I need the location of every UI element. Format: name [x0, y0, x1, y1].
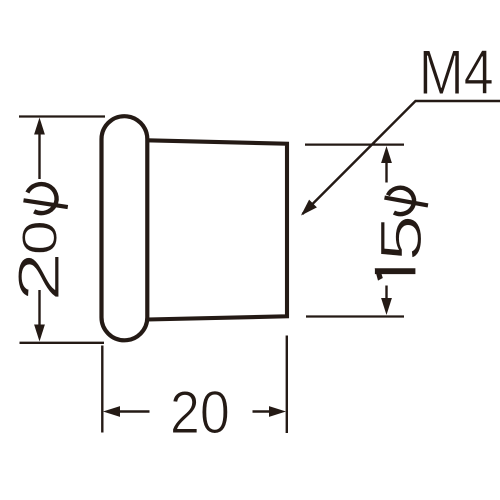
leader line M4 (horizontal + diagonal): [303, 101, 500, 214]
dimension line 15φ upper segment: [385, 161, 387, 183]
extension line bottom-left (20): [101, 346, 103, 433]
arrowhead 15φ down: [381, 298, 392, 315]
extension tick top-left (20φ): [19, 115, 105, 117]
label 15φ: phi symbol ring: [388, 188, 414, 214]
svg-text:0: 0: [13, 220, 68, 256]
extension tick top-right (15φ): [305, 143, 404, 145]
arrowhead 20φ down: [34, 325, 45, 342]
arrowhead M4 leader: [301, 200, 317, 216]
extension tick bottom-left (20φ): [20, 342, 105, 344]
knob flange (stadium outline): [102, 116, 148, 340]
arrowhead 20φ up: [34, 118, 45, 135]
dimension line 20 left segment: [118, 410, 150, 412]
extension line bottom-right (20): [286, 336, 288, 434]
svg-text:M4: M4: [419, 38, 494, 108]
label 15φ: phi symbol stem: [385, 198, 429, 206]
arrowhead 20 left: [103, 406, 120, 417]
dimension line 15φ lower segment: [385, 286, 387, 301]
label 20φ: phi symbol ring: [27, 184, 56, 213]
svg-text:5: 5: [369, 214, 434, 261]
dimension line 20φ lower segment: [38, 290, 40, 327]
arrowhead 20 right: [269, 406, 286, 417]
label 15φ: digit 1 (rotated): [375, 268, 416, 280]
arrowhead 15φ up: [381, 146, 392, 163]
svg-text:20: 20: [170, 379, 230, 446]
svg-text:2: 2: [7, 252, 72, 303]
label 20φ: phi symbol stem: [24, 200, 68, 207]
dimension line 20φ upper segment: [38, 132, 40, 179]
knob body (tapered cone, part outline): [147, 140, 287, 319]
extension tick bottom-right (15φ): [306, 315, 404, 317]
dimension line 20 right segment: [253, 410, 271, 412]
